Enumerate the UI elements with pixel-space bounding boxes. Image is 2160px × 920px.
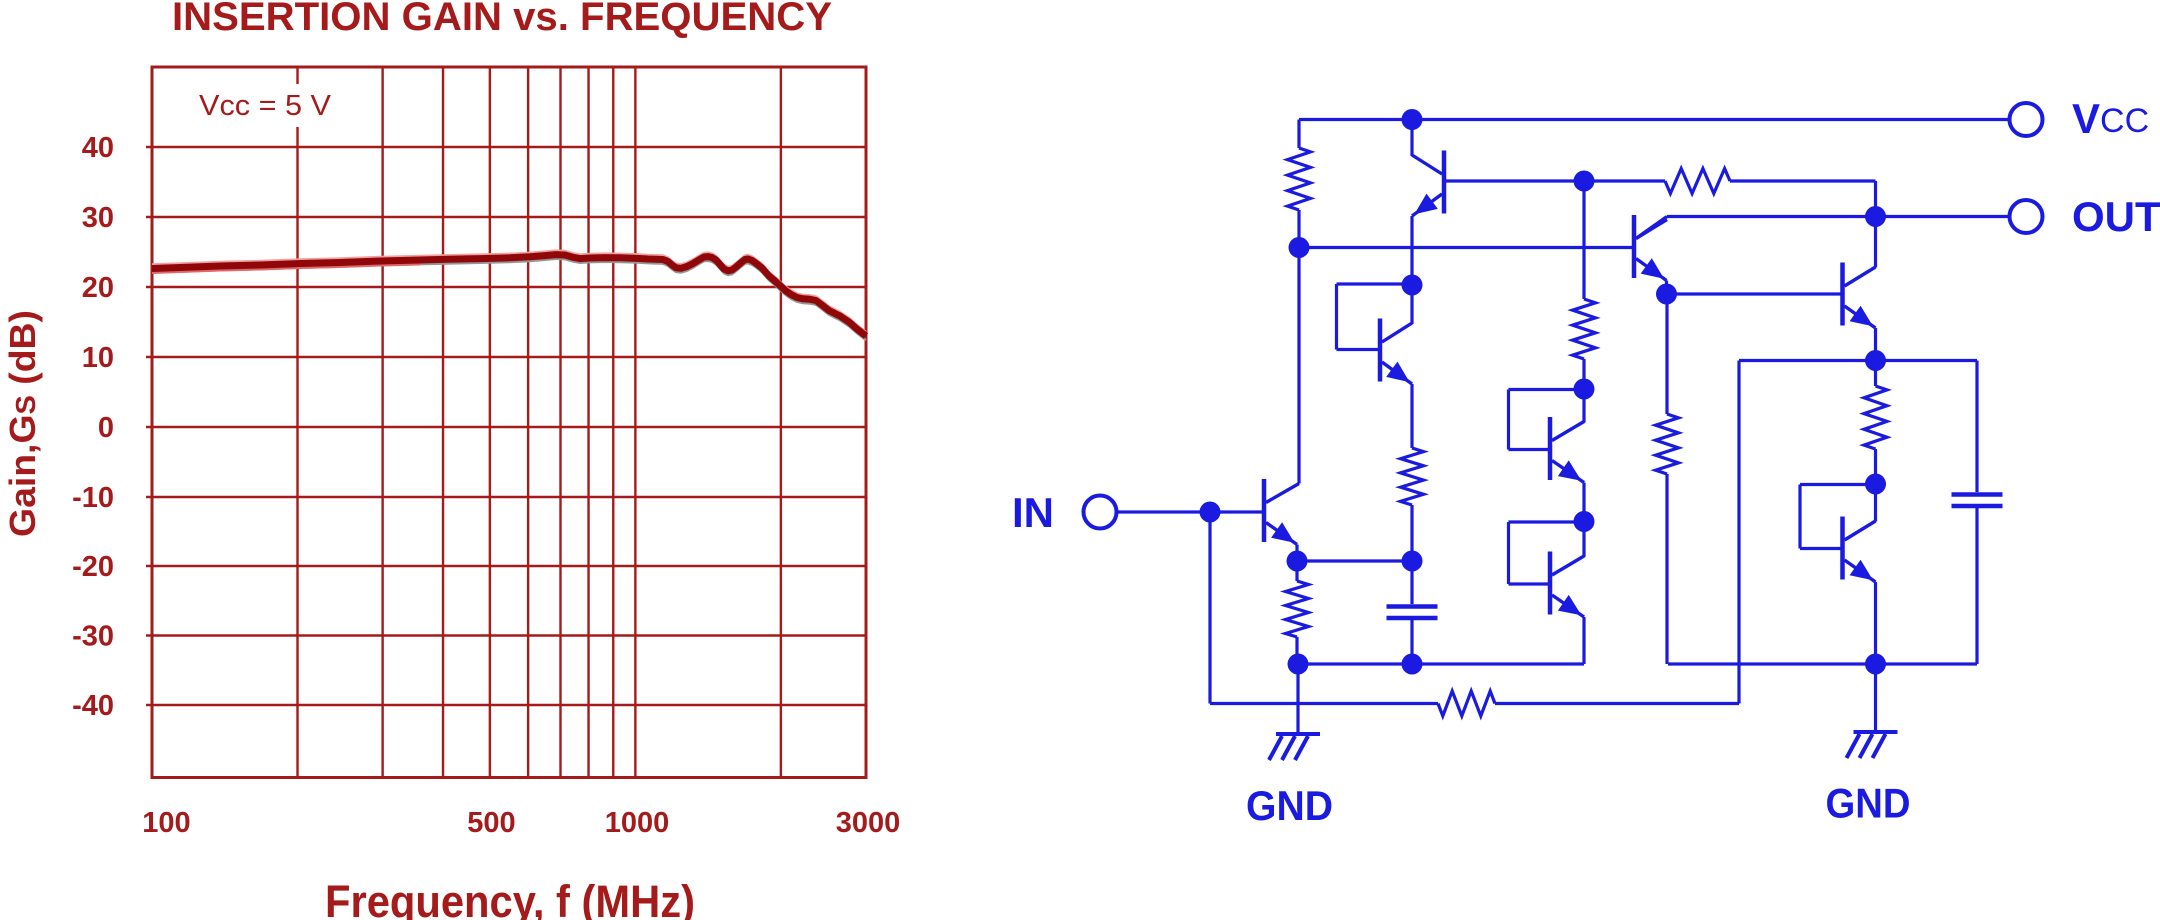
svg-text:40: 40 [82, 132, 114, 164]
svg-text:IN: IN [1012, 489, 1054, 536]
svg-text:0: 0 [98, 412, 114, 444]
svg-text:INSERTION GAIN vs. FREQUENCY: INSERTION GAIN vs. FREQUENCY [172, 0, 832, 39]
svg-text:3000: 3000 [836, 807, 901, 839]
svg-text:-10: -10 [72, 482, 114, 514]
svg-text:GND: GND [1246, 782, 1333, 829]
svg-text:Vcc = 5 V: Vcc = 5 V [199, 90, 332, 122]
svg-text:-20: -20 [72, 551, 114, 583]
svg-text:100: 100 [142, 807, 190, 839]
svg-text:10: 10 [82, 342, 114, 374]
svg-text:30: 30 [82, 202, 114, 234]
svg-text:20: 20 [82, 272, 114, 304]
svg-text:1000: 1000 [605, 807, 670, 839]
svg-text:VCC: VCC [2072, 95, 2149, 142]
svg-text:-40: -40 [72, 690, 114, 722]
svg-text:GND: GND [1826, 780, 1911, 827]
svg-text:Frequency, f (MHz): Frequency, f (MHz) [325, 876, 695, 920]
svg-text:Gain,GS (dB): Gain,GS (dB) [2, 310, 43, 537]
svg-text:OUT: OUT [2072, 193, 2160, 240]
svg-text:-30: -30 [72, 621, 114, 653]
svg-text:500: 500 [467, 807, 515, 839]
